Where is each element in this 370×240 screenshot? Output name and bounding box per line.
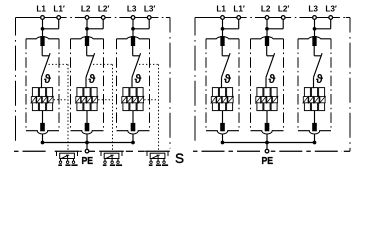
wire disconnector to switch	[266, 46, 268, 56]
wire varistor stack to lower disconnector	[222, 111, 224, 124]
lower thermal disconnector (filled)	[265, 123, 270, 131]
wire lower disconnector to PE bus	[266, 134, 268, 143]
wire disconnector to switch	[86, 46, 88, 56]
varistor stack housing	[257, 88, 277, 111]
svg-text:L3′: L3′	[144, 5, 156, 14]
wire varistor stack to lower disconnector	[314, 111, 316, 124]
wire lower disconnector to PE bus	[86, 134, 88, 143]
module box top edge with plug-in contact arc	[298, 37, 331, 39]
terminal L3′	[147, 16, 151, 20]
terminal L1	[221, 16, 225, 20]
enclosure bottom border (dash-dot)	[193, 150, 342, 152]
wire junction to upper disconnector	[222, 29, 224, 37]
svg-text:PE: PE	[262, 155, 274, 167]
wire switch to varistor stack	[313, 77, 315, 88]
terminal L2′	[281, 16, 285, 20]
PE terminal	[265, 149, 269, 153]
svg-text:L3: L3	[308, 5, 318, 14]
junction dot on PE bus	[85, 141, 89, 145]
thermal disconnect switch ϑ	[222, 53, 231, 77]
terminal L1	[41, 16, 45, 20]
thermal disconnect switch ϑ	[132, 53, 141, 77]
module box top edge with plug-in contact arc	[206, 37, 239, 39]
PE bus	[223, 142, 315, 144]
junction dot on PE bus	[265, 141, 269, 145]
upper thermal disconnector (filled)	[131, 36, 135, 46]
junction dot L1	[41, 27, 45, 31]
wire junction to upper disconnector	[314, 29, 316, 37]
junction dot L2	[85, 27, 89, 31]
wire lower disconnector to PE bus	[42, 134, 44, 143]
FM terminal designation marks	[103, 164, 122, 166]
enclosure left border (dash-dot)	[194, 18, 196, 144]
terminal L2	[85, 16, 89, 20]
module box top edge with plug-in contact arc	[71, 37, 104, 39]
junction dot on PE bus	[221, 141, 225, 145]
mechanical linkage (dotted) from switch and varistor to FM contact	[139, 64, 159, 150]
wire varistor stack to lower disconnector	[132, 111, 134, 124]
svg-text:L2′: L2′	[278, 5, 290, 14]
wire lower disconnector to PE bus	[132, 134, 134, 143]
wire junction to upper disconnector	[266, 29, 268, 37]
thermal disconnect switch ϑ	[86, 53, 95, 77]
upper thermal disconnector (filled)	[312, 36, 316, 46]
enclosure right border (dash-dot)	[169, 18, 171, 149]
svg-text:L2′: L2′	[98, 5, 110, 14]
junction dot on PE bus	[41, 141, 45, 145]
varistor elements (4x MOV)	[121, 96, 144, 104]
module boundary (dash-dot sides)	[71, 39, 104, 131]
svg-text:L2: L2	[81, 5, 91, 14]
svg-text:ϑ: ϑ	[88, 72, 95, 86]
varistor elements (4x MOV)	[75, 96, 98, 104]
junction dot on PE bus	[313, 141, 317, 145]
svg-text:L1: L1	[36, 5, 46, 14]
wire L1′ terminal to junction	[43, 20, 59, 29]
enclosure right border (dash-dot)	[344, 18, 350, 152]
enclosure left border (dash-dot)	[15, 18, 17, 144]
wire L3 terminal to junction	[314, 20, 316, 29]
enclosure top border (dash-dot through terminals)	[16, 17, 171, 19]
svg-text:L3′: L3′	[325, 5, 337, 14]
FM remote signalling changeover contact	[55, 151, 80, 163]
terminal L2	[265, 16, 269, 20]
wire disconnector to switch	[221, 46, 223, 56]
wire disconnector to switch	[41, 46, 43, 56]
wire junction to upper disconnector	[132, 29, 134, 37]
svg-text:L1: L1	[216, 5, 226, 14]
module box bottom edge with plug-in contact arc	[251, 131, 284, 134]
svg-text:L2: L2	[261, 5, 271, 14]
thermal disconnect switch ϑ	[42, 53, 51, 77]
wire varistor stack to lower disconnector	[86, 111, 88, 124]
svg-text:L1′: L1′	[53, 5, 65, 14]
lower thermal disconnector (filled)	[85, 123, 90, 131]
svg-text:ϑ: ϑ	[268, 72, 275, 86]
module boundary (dash-dot sides)	[117, 39, 150, 131]
wire L2 terminal to junction	[86, 20, 88, 29]
lower thermal disconnector (filled)	[40, 123, 45, 131]
mechanical linkage (dotted) from switch and varistor to FM contact	[93, 64, 113, 150]
module box bottom edge with plug-in contact arc	[71, 131, 104, 134]
module box bottom edge with plug-in contact arc	[206, 131, 239, 134]
upper thermal disconnector (filled)	[40, 36, 44, 46]
wire junction to upper disconnector	[42, 29, 44, 37]
lower thermal disconnector (filled)	[131, 123, 136, 131]
wire L1′ terminal to junction	[223, 20, 239, 29]
module boundary (dash-dot sides)	[26, 39, 59, 131]
wire switch to varistor stack	[85, 77, 87, 88]
wire varistor stack to lower disconnector	[266, 111, 268, 124]
wire L2 terminal to junction	[266, 20, 268, 29]
varistor stack housing	[304, 88, 324, 111]
terminal L3	[313, 16, 317, 20]
terminal L3	[131, 16, 135, 20]
varistor stack housing	[212, 88, 232, 111]
thermal disconnect switch ϑ	[266, 53, 275, 77]
FM remote signalling changeover contact	[99, 151, 124, 163]
module box bottom edge with plug-in contact arc	[117, 131, 150, 134]
junction dot L3	[313, 27, 317, 31]
varistor stack housing	[32, 88, 52, 111]
module box bottom edge with plug-in contact arc	[298, 131, 331, 134]
enclosure top border (dash-dot through terminals)	[195, 17, 350, 19]
module boundary (dash-dot sides)	[251, 39, 284, 131]
wire L3 terminal to junction	[132, 20, 134, 29]
junction dot L1	[221, 27, 225, 31]
junction dot L2	[265, 27, 269, 31]
PE terminal	[85, 149, 89, 153]
svg-text:L1′: L1′	[233, 5, 245, 14]
module box top edge with plug-in contact arc	[251, 37, 284, 39]
wire switch to varistor stack	[131, 77, 133, 88]
junction dot L3	[131, 27, 135, 31]
varistor elements (4x MOV)	[31, 96, 54, 104]
wire bus to PE terminal	[266, 143, 268, 150]
thermal disconnect switch ϑ	[314, 53, 323, 77]
module box bottom edge with plug-in contact arc	[26, 131, 59, 134]
terminal L1′	[57, 16, 61, 20]
FM terminal designation marks	[58, 164, 77, 166]
wire L2′ terminal to junction	[267, 20, 283, 29]
upper thermal disconnector (filled)	[265, 36, 269, 46]
varistor stack housing	[123, 88, 143, 111]
FM terminal designation marks	[149, 164, 168, 166]
svg-text:ϑ: ϑ	[44, 72, 51, 86]
svg-text:PE: PE	[82, 155, 94, 167]
varistor elements (4x MOV)	[303, 96, 326, 104]
lower thermal disconnector (filled)	[312, 123, 317, 131]
mechanical linkage (dotted) from switch and varistor to FM contact	[49, 64, 69, 150]
wire switch to varistor stack	[265, 77, 267, 88]
wire switch to varistor stack	[41, 77, 43, 88]
varistor elements (4x MOV)	[211, 96, 234, 104]
terminal L2′	[101, 16, 105, 20]
upper thermal disconnector (filled)	[85, 36, 89, 46]
svg-text:S: S	[175, 151, 184, 166]
upper thermal disconnector (filled)	[220, 36, 224, 46]
module box top edge with plug-in contact arc	[117, 37, 150, 39]
terminal L1′	[237, 16, 241, 20]
module box top edge with plug-in contact arc	[26, 37, 59, 39]
enclosure bottom border (dash-dot)	[14, 150, 145, 152]
wire varistor stack to lower disconnector	[42, 111, 44, 124]
svg-text:L3: L3	[127, 5, 137, 14]
wire switch to varistor stack	[221, 77, 223, 88]
varistor stack housing	[77, 88, 97, 111]
wire L3′ terminal to junction	[315, 20, 331, 29]
wire disconnector to switch	[313, 46, 315, 56]
wire L1 terminal to junction	[42, 20, 44, 29]
wire L3′ terminal to junction	[133, 20, 149, 29]
svg-text:ϑ: ϑ	[134, 72, 141, 86]
PE bus	[43, 142, 134, 144]
lower thermal disconnector (filled)	[220, 123, 225, 131]
varistor elements (4x MOV)	[255, 96, 278, 104]
wire lower disconnector to PE bus	[314, 134, 316, 143]
module boundary (dash-dot sides)	[206, 39, 239, 131]
terminal L3′	[329, 16, 333, 20]
wire L2′ terminal to junction	[87, 20, 103, 29]
wire bus to PE terminal	[86, 143, 88, 150]
junction dot on PE bus	[131, 141, 135, 145]
wire disconnector to switch	[132, 46, 134, 56]
wire L1 terminal to junction	[222, 20, 224, 29]
wire junction to upper disconnector	[86, 29, 88, 37]
wire lower disconnector to PE bus	[222, 134, 224, 143]
svg-text:ϑ: ϑ	[224, 72, 231, 86]
svg-text:ϑ: ϑ	[316, 72, 323, 86]
module boundary (dash-dot sides)	[298, 39, 331, 131]
FM remote signalling changeover contact	[145, 151, 170, 163]
